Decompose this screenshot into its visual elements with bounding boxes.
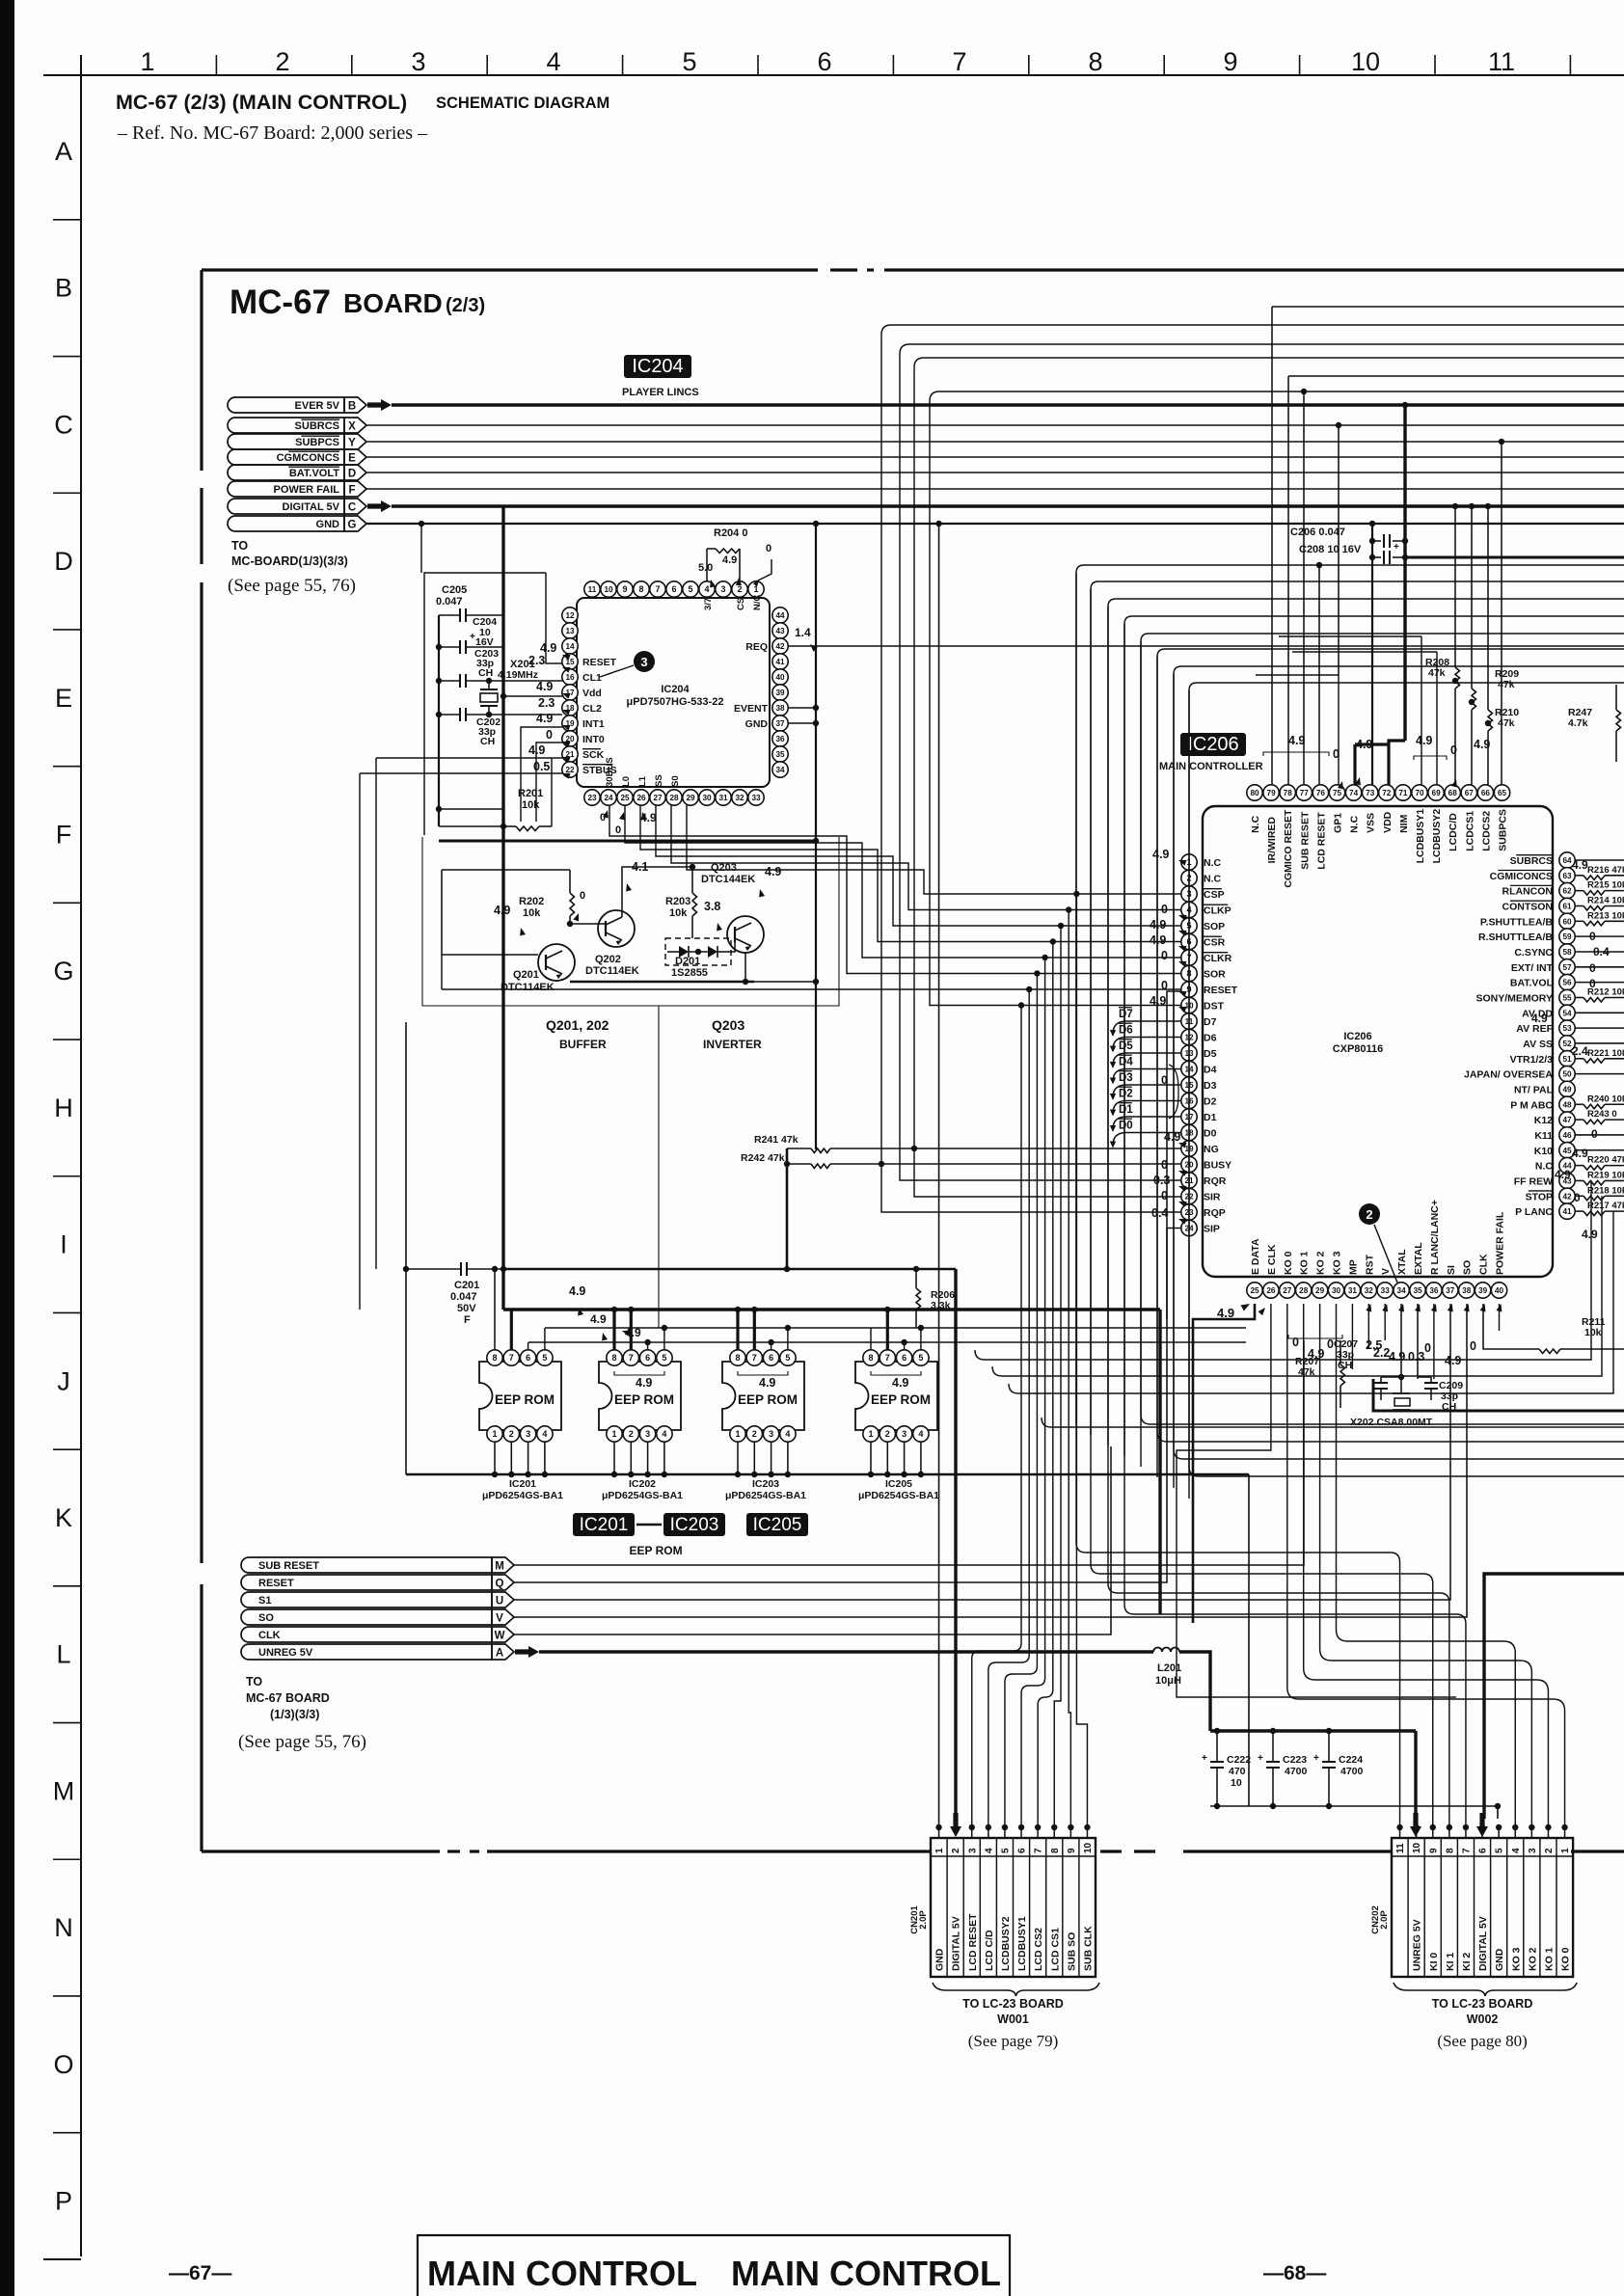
svg-text:SUB RESET: SUB RESET bbox=[1299, 811, 1311, 870]
svg-text:(See page 80): (See page 80) bbox=[1437, 2032, 1527, 2050]
svg-text:0: 0 bbox=[1161, 979, 1168, 992]
IC206 bottom pins 25-40 bbox=[1247, 1283, 1262, 1298]
wire MP pin31 down bbox=[1351, 1304, 1353, 1369]
svg-text:10k: 10k bbox=[522, 799, 540, 811]
svg-text:28: 28 bbox=[669, 794, 679, 802]
svg-text:35: 35 bbox=[775, 750, 785, 759]
wire CN201 col6 riser to IC206 row y=993.0 bbox=[1021, 958, 1045, 1827]
svg-text:6: 6 bbox=[769, 1353, 773, 1363]
svg-text:36: 36 bbox=[1429, 1286, 1439, 1295]
svg-text:0: 0 bbox=[615, 824, 621, 836]
wire S1 bbox=[514, 1304, 1450, 1600]
svg-text:2.3: 2.3 bbox=[538, 696, 555, 710]
svg-text:R243 0: R243 0 bbox=[1587, 1109, 1617, 1120]
svg-text:D1: D1 bbox=[1119, 1104, 1133, 1116]
svg-text:MC-67 BOARD: MC-67 BOARD bbox=[246, 1691, 330, 1705]
svg-text:BAT.VOLT: BAT.VOLT bbox=[289, 468, 339, 479]
svg-text:N/C: N/C bbox=[752, 595, 763, 611]
svg-text:(See page 55, 76): (See page 55, 76) bbox=[238, 1732, 366, 1752]
svg-text:2: 2 bbox=[629, 1429, 634, 1439]
EEPROM IC205 bottom pins 1-4 bbox=[863, 1426, 879, 1442]
EEPROM IC201 body bbox=[479, 1362, 561, 1430]
svg-text:IC204: IC204 bbox=[632, 356, 683, 377]
svg-text:EEP ROM: EEP ROM bbox=[495, 1392, 555, 1407]
IC204 pin1 wire bbox=[756, 559, 771, 581]
svg-text:4.9: 4.9 bbox=[1531, 1012, 1548, 1025]
svg-text:D4: D4 bbox=[1119, 1057, 1133, 1068]
wire CN201 col8 riser to IC206 row y=960.0 bbox=[1054, 926, 1061, 1827]
bottom cap rail bbox=[1210, 1805, 1498, 1807]
svg-text:D0: D0 bbox=[1204, 1128, 1217, 1140]
svg-text:N.C: N.C bbox=[1204, 874, 1222, 885]
svg-text:41: 41 bbox=[1562, 1207, 1572, 1216]
svg-text:0: 0 bbox=[1589, 977, 1596, 990]
svg-text:INT1: INT1 bbox=[582, 718, 605, 730]
thick arrow UNREG 5V bbox=[515, 1646, 539, 1658]
connector stub BAT.VOLT (D) bbox=[228, 465, 344, 480]
svg-text:30BUS: 30BUS bbox=[605, 757, 615, 787]
wire to CN202 col 1 bbox=[1076, 573, 1400, 1827]
svg-text:XTAL: XTAL bbox=[1396, 1249, 1408, 1275]
wire IC206 pin10 DST row bbox=[930, 401, 1181, 1006]
svg-text:4.9: 4.9 bbox=[536, 680, 553, 693]
wire INT0 left bbox=[536, 743, 562, 822]
svg-text:30: 30 bbox=[702, 794, 712, 802]
svg-text:CXP80116: CXP80116 bbox=[1333, 1043, 1384, 1055]
thick vertical R241/242 feed bbox=[786, 1148, 789, 1269]
svg-text:4.9: 4.9 bbox=[1445, 1354, 1461, 1367]
svg-text:NIM: NIM bbox=[1398, 814, 1410, 833]
inductor L201 bbox=[1153, 1648, 1179, 1653]
wire right-edge y=673 down at x=1200 bbox=[1157, 649, 1624, 657]
svg-text:POWER FAIL: POWER FAIL bbox=[274, 484, 340, 496]
svg-text:DST: DST bbox=[1204, 1001, 1225, 1013]
svg-text:1: 1 bbox=[611, 1429, 616, 1439]
wire GND bus bbox=[366, 523, 1624, 525]
svg-text:CLK: CLK bbox=[258, 1630, 281, 1641]
resistor R217 bbox=[1575, 1210, 1583, 1212]
svg-text:IC201: IC201 bbox=[509, 1478, 536, 1490]
svg-text:46: 46 bbox=[1562, 1131, 1572, 1140]
svg-text:R204 0: R204 0 bbox=[714, 527, 747, 539]
wire from right edge turning down at x=933 bbox=[900, 344, 1624, 354]
svg-text:LCD C/D: LCD C/D bbox=[984, 1930, 995, 1971]
svg-text:IC206: IC206 bbox=[1187, 734, 1238, 755]
svg-text:6: 6 bbox=[645, 1353, 650, 1363]
svg-text:MC-67 (2/3) (MAIN CONTROL): MC-67 (2/3) (MAIN CONTROL) bbox=[116, 91, 407, 114]
wire SUBRCS bbox=[366, 424, 1624, 426]
wire from right edge turning down at x=948 bbox=[914, 358, 1624, 367]
svg-text:D5: D5 bbox=[1119, 1040, 1133, 1052]
thick arrow EVER 5V bbox=[367, 399, 392, 411]
wire DIGITAL 5V bus (thick) bbox=[392, 504, 1624, 507]
wire RESET bbox=[514, 991, 1181, 1582]
svg-text:52: 52 bbox=[1562, 1040, 1572, 1048]
emitter rail bbox=[570, 981, 754, 984]
thick rail from C208 to right bbox=[1405, 556, 1624, 559]
wire CN201 col3 riser to IC206 row y=1042.5 bbox=[972, 1006, 1021, 1828]
ruler row ticks bbox=[53, 219, 81, 221]
svg-text:UNREG 5V: UNREG 5V bbox=[258, 1647, 313, 1659]
svg-text:38: 38 bbox=[775, 704, 785, 713]
svg-text:SI: SI bbox=[1446, 1265, 1457, 1275]
svg-text:0: 0 bbox=[1292, 1336, 1299, 1349]
svg-text:VTR1/2/3: VTR1/2/3 bbox=[1510, 1054, 1554, 1066]
wire right-edge y=603 down at x=1131 bbox=[1091, 581, 1624, 589]
EEPROM IC203 top pins 8-5 bbox=[730, 1350, 745, 1365]
svg-text:44: 44 bbox=[775, 611, 785, 620]
svg-text:C: C bbox=[54, 410, 73, 439]
wire SUBPCS bbox=[366, 441, 1624, 443]
svg-text:C206 0.047: C206 0.047 bbox=[1290, 527, 1345, 538]
svg-text:+: + bbox=[1258, 1753, 1263, 1764]
EEPROM bottom pin drops bbox=[494, 1442, 496, 1474]
svg-text:C: C bbox=[348, 502, 356, 514]
svg-text:4.9: 4.9 bbox=[1288, 734, 1305, 747]
svg-text:3: 3 bbox=[720, 584, 725, 594]
svg-text:SIR: SIR bbox=[1204, 1192, 1221, 1203]
divider bbox=[658, 1006, 660, 1328]
svg-text:4.9: 4.9 bbox=[1555, 1168, 1571, 1181]
svg-text:10: 10 bbox=[1083, 1842, 1094, 1853]
svg-text:MP: MP bbox=[1347, 1259, 1359, 1275]
wire right-edge y=639 down at x=1166 bbox=[1124, 616, 1624, 624]
svg-text:72: 72 bbox=[1382, 789, 1392, 797]
svg-text:R221 10k: R221 10k bbox=[1587, 1048, 1624, 1059]
svg-text:IC203: IC203 bbox=[670, 1515, 719, 1535]
svg-text:N.C: N.C bbox=[1250, 815, 1261, 833]
svg-text:K11: K11 bbox=[1534, 1130, 1553, 1142]
svg-text:IC203: IC203 bbox=[752, 1478, 779, 1490]
svg-text:DTC114EK: DTC114EK bbox=[585, 965, 639, 977]
svg-text:4: 4 bbox=[662, 1429, 666, 1439]
svg-text:SIP: SIP bbox=[1204, 1224, 1220, 1235]
svg-text:32: 32 bbox=[735, 794, 744, 802]
svg-text:MAIN CONTROLLER: MAIN CONTROLLER bbox=[1159, 761, 1263, 772]
svg-text:5.0: 5.0 bbox=[698, 562, 713, 574]
svg-text:7: 7 bbox=[1034, 1848, 1044, 1853]
svg-text:BUSY: BUSY bbox=[1204, 1160, 1232, 1172]
svg-text:39: 39 bbox=[775, 689, 785, 697]
wire RLANC pin36 down bbox=[1433, 1304, 1435, 1379]
svg-text:0: 0 bbox=[580, 890, 585, 902]
wire SCK via R201 bbox=[551, 758, 553, 826]
svg-text:29: 29 bbox=[686, 794, 695, 802]
svg-text:SUBRCS: SUBRCS bbox=[1510, 855, 1553, 867]
svg-text:KO 3: KO 3 bbox=[1332, 1251, 1343, 1275]
svg-text:8: 8 bbox=[1088, 47, 1102, 76]
svg-text:2.0P: 2.0P bbox=[918, 1910, 929, 1930]
resistor R213 bbox=[1575, 920, 1583, 922]
svg-text:SCHEMATIC DIAGRAM: SCHEMATIC DIAGRAM bbox=[436, 95, 609, 112]
svg-text:G: G bbox=[348, 520, 357, 531]
svg-text:RESET: RESET bbox=[582, 657, 617, 668]
svg-text:4: 4 bbox=[542, 1429, 547, 1439]
svg-text:80: 80 bbox=[1250, 789, 1259, 797]
svg-text:0: 0 bbox=[1161, 1073, 1168, 1087]
wires E DATA E CLK from IC206 pins 25 26 bbox=[1193, 1304, 1255, 1623]
svg-text:26: 26 bbox=[1266, 1286, 1276, 1295]
wire CN201 col9 riser to IC206 row y=943.5 bbox=[1069, 910, 1070, 1828]
svg-text:F: F bbox=[56, 821, 72, 850]
IC202 pin8 thick drop bbox=[612, 1310, 615, 1350]
connector stub RESET (Q) bbox=[241, 1575, 492, 1590]
ruler bottom tick bbox=[43, 2258, 81, 2260]
svg-text:W: W bbox=[495, 1631, 505, 1642]
svg-text:51: 51 bbox=[1562, 1055, 1572, 1064]
svg-text:LCDBUSY2: LCDBUSY2 bbox=[1000, 1916, 1012, 1971]
svg-text:38: 38 bbox=[1462, 1286, 1472, 1295]
IC203 pin8 thick drop bbox=[736, 1310, 739, 1350]
thick rail drops to pin7 of EEPROMs bbox=[510, 1310, 513, 1350]
IC204 bottom pins 23-33 bbox=[584, 790, 600, 805]
svg-text:2.4: 2.4 bbox=[1572, 1044, 1588, 1058]
svg-text:LCDBUSY1: LCDBUSY1 bbox=[1415, 809, 1426, 864]
svg-text:B: B bbox=[348, 401, 356, 413]
svg-text:KO 2: KO 2 bbox=[1315, 1251, 1327, 1275]
EEPROM group reference labels bbox=[573, 1513, 635, 1536]
svg-text:58: 58 bbox=[1562, 948, 1572, 957]
svg-text:54: 54 bbox=[1562, 1009, 1572, 1017]
svg-text:GP1: GP1 bbox=[1333, 813, 1344, 833]
EEPROM IC203 bottom pins 1-4 bbox=[730, 1426, 745, 1442]
svg-text:MC-BOARD(1/3)(3/3): MC-BOARD(1/3)(3/3) bbox=[231, 554, 348, 568]
svg-text:R242 47k: R242 47k bbox=[741, 1152, 785, 1164]
svg-text:C222: C222 bbox=[1227, 1754, 1251, 1766]
svg-text:RLANCON: RLANCON bbox=[1502, 886, 1554, 898]
svg-text:CL1: CL1 bbox=[582, 672, 602, 684]
svg-text:C205: C205 bbox=[442, 584, 467, 596]
svg-text:4: 4 bbox=[546, 47, 560, 76]
svg-text:43: 43 bbox=[775, 627, 785, 635]
svg-text:6: 6 bbox=[526, 1353, 530, 1363]
svg-text:TO: TO bbox=[246, 1675, 262, 1688]
resistor R219 bbox=[1575, 1179, 1583, 1181]
wire right-edge y=708 down at x=1233 bbox=[1189, 683, 1624, 690]
EEPROM IC203 body bbox=[722, 1362, 804, 1430]
connector stub S1 (U) bbox=[241, 1592, 492, 1607]
wire pin69 up bbox=[1436, 652, 1438, 785]
ruler top line bbox=[43, 74, 1624, 76]
svg-text:DIGITAL 5V: DIGITAL 5V bbox=[951, 1916, 962, 1971]
svg-text:—68—: —68— bbox=[1263, 2262, 1326, 2284]
wire EVER5V to pin71 (thick) bbox=[1403, 405, 1406, 741]
svg-text:R202: R202 bbox=[519, 896, 544, 907]
svg-text:3: 3 bbox=[967, 1848, 978, 1853]
svg-text:7: 7 bbox=[629, 1353, 634, 1363]
thick feed to CN202 pin6 from right edge bbox=[1484, 1574, 1624, 1819]
EEPROM IC202 body bbox=[599, 1362, 681, 1430]
svg-text:CH: CH bbox=[478, 667, 493, 679]
svg-text:4.9: 4.9 bbox=[892, 1376, 908, 1390]
svg-text:4: 4 bbox=[785, 1429, 790, 1439]
svg-text:25: 25 bbox=[1250, 1286, 1259, 1295]
svg-text:36: 36 bbox=[775, 735, 785, 743]
svg-text:SCK: SCK bbox=[582, 749, 605, 761]
svg-text:68: 68 bbox=[1448, 789, 1458, 797]
svg-text:0: 0 bbox=[1327, 1337, 1334, 1351]
svg-text:SUBRCS: SUBRCS bbox=[295, 420, 339, 432]
svg-text:LCDBUSY1: LCDBUSY1 bbox=[1016, 1916, 1028, 1971]
svg-text:VSS: VSS bbox=[1366, 813, 1377, 833]
svg-text:D4: D4 bbox=[1204, 1065, 1217, 1076]
svg-text:0: 0 bbox=[1470, 1339, 1476, 1353]
svg-text:M: M bbox=[53, 1776, 75, 1805]
wire pin76 up bbox=[1318, 565, 1320, 785]
svg-text:37: 37 bbox=[775, 719, 785, 728]
svg-text:8: 8 bbox=[492, 1353, 497, 1363]
svg-text:R203: R203 bbox=[665, 896, 690, 907]
svg-text:4: 4 bbox=[984, 1848, 994, 1853]
IC204 body outline bbox=[577, 598, 770, 787]
thick top cap rail bbox=[1210, 1729, 1416, 1732]
thick rail drop at x1203 bbox=[1158, 1310, 1161, 1614]
IC206 right pins 64-41 bbox=[1559, 852, 1575, 868]
svg-text:10: 10 bbox=[604, 585, 613, 594]
wire pin65 SUBPCS up bbox=[1501, 442, 1502, 785]
svg-text:D2: D2 bbox=[1204, 1096, 1217, 1108]
svg-text:C223: C223 bbox=[1283, 1754, 1307, 1766]
IC206 body outline bbox=[1203, 806, 1553, 1277]
IC204 left pins 12-22 bbox=[562, 608, 578, 623]
svg-text:2: 2 bbox=[885, 1429, 890, 1439]
svg-text:4.9: 4.9 bbox=[540, 641, 556, 655]
svg-text:GND: GND bbox=[316, 519, 340, 530]
svg-text:1: 1 bbox=[492, 1429, 497, 1439]
svg-text:μPD6254GS-BA1: μPD6254GS-BA1 bbox=[725, 1490, 806, 1501]
svg-text:34: 34 bbox=[775, 766, 785, 774]
svg-text:(See page 79): (See page 79) bbox=[968, 2032, 1058, 2050]
thick line below crystal bbox=[1373, 1379, 1624, 1411]
wire KO 1 bbox=[1304, 1304, 1549, 1827]
svg-text:50V: 50V bbox=[457, 1303, 476, 1314]
svg-text:L0: L0 bbox=[621, 776, 632, 787]
svg-text:VDD: VDD bbox=[1382, 811, 1394, 833]
svg-text:4.9: 4.9 bbox=[1582, 1228, 1598, 1241]
svg-text:+: + bbox=[1202, 1753, 1207, 1764]
svg-text:V: V bbox=[1380, 1268, 1392, 1275]
svg-text:+: + bbox=[470, 632, 475, 642]
svg-text:Q: Q bbox=[496, 1579, 504, 1590]
svg-text:J: J bbox=[57, 1366, 70, 1395]
svg-text:RESET: RESET bbox=[258, 1578, 294, 1589]
wire return y=1410 bbox=[975, 1180, 1591, 1360]
svg-text:48: 48 bbox=[1562, 1100, 1572, 1109]
wire pin75 up bbox=[1338, 675, 1340, 785]
svg-text:SOR: SOR bbox=[1204, 969, 1226, 981]
IC206 right plain wires bbox=[1575, 859, 1624, 861]
wire to CN202 col 3 bbox=[1091, 589, 1433, 1827]
svg-text:71: 71 bbox=[1398, 789, 1408, 797]
svg-text:STOP: STOP bbox=[1526, 1191, 1553, 1202]
svg-text:2.0P: 2.0P bbox=[1379, 1910, 1390, 1930]
svg-text:IR/WIRED: IR/WIRED bbox=[1266, 817, 1278, 864]
svg-text:(2/3): (2/3) bbox=[446, 295, 485, 316]
svg-text:4: 4 bbox=[918, 1429, 923, 1439]
svg-text:MAIN CONTROL: MAIN CONTROL bbox=[427, 2254, 697, 2293]
svg-text:B: B bbox=[55, 274, 72, 303]
svg-text:26: 26 bbox=[636, 794, 646, 802]
svg-text:7: 7 bbox=[655, 584, 660, 594]
svg-text:D6: D6 bbox=[1204, 1033, 1217, 1044]
svg-text:D2: D2 bbox=[1119, 1089, 1133, 1100]
svg-text:C201: C201 bbox=[454, 1280, 479, 1291]
svg-text:3: 3 bbox=[645, 1429, 650, 1439]
svg-text:NG: NG bbox=[1204, 1144, 1219, 1155]
svg-text:1: 1 bbox=[735, 1429, 740, 1439]
svg-text:0: 0 bbox=[1161, 949, 1168, 962]
wire right-edge y=586 down at x=1116 bbox=[1076, 565, 1624, 573]
connector stub CLK (W) bbox=[241, 1627, 492, 1642]
capacitor C222 bbox=[1210, 1761, 1224, 1763]
connector stub SUBPCS (Y) bbox=[228, 434, 344, 449]
wire EVER 5V bus (thick) bbox=[392, 403, 1624, 406]
wire corner right y=1531 bbox=[1189, 690, 1624, 1476]
svg-text:5: 5 bbox=[688, 584, 692, 594]
svg-text:CGMCONCS: CGMCONCS bbox=[277, 452, 339, 464]
svg-text:R219 10k: R219 10k bbox=[1587, 1170, 1624, 1180]
svg-text:KO 0: KO 0 bbox=[1560, 1947, 1572, 1971]
svg-text:39: 39 bbox=[1478, 1286, 1488, 1295]
svg-text:KO 1: KO 1 bbox=[1299, 1251, 1311, 1275]
svg-text:D: D bbox=[54, 547, 73, 576]
svg-text:+: + bbox=[1394, 542, 1399, 553]
svg-text:L1: L1 bbox=[637, 775, 648, 787]
svg-text:6: 6 bbox=[817, 47, 831, 76]
svg-text:N.C: N.C bbox=[1204, 857, 1222, 869]
svg-text:W002: W002 bbox=[1467, 2012, 1499, 2026]
svg-text:D1: D1 bbox=[1204, 1112, 1217, 1123]
wire SUB RESET bbox=[514, 1340, 1304, 1565]
svg-text:0.3: 0.3 bbox=[1408, 1350, 1424, 1364]
wire IC206 pin3 row bbox=[687, 805, 1181, 894]
wire return y=1480 bbox=[1042, 1418, 1624, 1427]
svg-text:0: 0 bbox=[1450, 743, 1457, 757]
svg-text:5: 5 bbox=[918, 1353, 923, 1363]
svg-text:1: 1 bbox=[1560, 1848, 1571, 1853]
svg-text:4.7k: 4.7k bbox=[1568, 717, 1588, 729]
wires DIGITAL5V to pins 68 67 66 bbox=[1454, 506, 1456, 667]
svg-text:4.9: 4.9 bbox=[1152, 848, 1169, 861]
svg-text:3: 3 bbox=[902, 1429, 907, 1439]
svg-text:9: 9 bbox=[1223, 47, 1237, 76]
thick EEPROM supply rail bbox=[503, 1308, 1160, 1310]
diode D201 dashed box bbox=[665, 938, 731, 965]
wire CN201 pin1 GND riser bbox=[938, 524, 940, 1827]
diode D201 elements bbox=[679, 946, 689, 958]
svg-text:R215 10k: R215 10k bbox=[1587, 880, 1624, 891]
board border top bbox=[202, 268, 818, 271]
wire pin79 up bbox=[1271, 307, 1273, 785]
bottom rail drop right bbox=[1248, 1474, 1250, 1806]
pin8 connects up to DIGITAL wire bbox=[494, 1269, 496, 1350]
svg-text:35: 35 bbox=[1413, 1286, 1422, 1295]
wire POWER FAIL bbox=[366, 488, 1624, 490]
crystal X202 symbol bbox=[1394, 1398, 1410, 1406]
svg-text:GND: GND bbox=[934, 1948, 946, 1971]
IC205 pin8 up bbox=[870, 1328, 872, 1350]
svg-text:10k: 10k bbox=[669, 907, 688, 919]
svg-text:0: 0 bbox=[1424, 1341, 1431, 1355]
svg-text:9: 9 bbox=[1067, 1848, 1077, 1853]
EEPROM IC202 bottom pins 1-4 bbox=[607, 1426, 622, 1442]
svg-text:1: 1 bbox=[868, 1429, 873, 1439]
svg-text:W001: W001 bbox=[997, 2012, 1029, 2026]
svg-text:SUBPCS: SUBPCS bbox=[1498, 809, 1509, 851]
thick arrow DIGITAL 5V bbox=[367, 500, 392, 512]
svg-text:2: 2 bbox=[275, 47, 289, 76]
svg-text:D: D bbox=[348, 469, 356, 480]
